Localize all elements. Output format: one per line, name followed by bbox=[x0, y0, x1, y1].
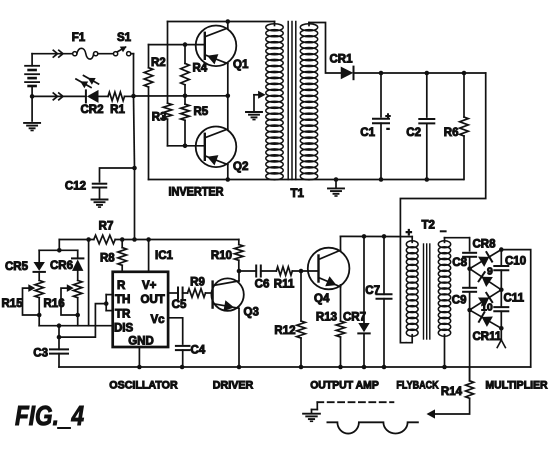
svg-text:OSCILLATOR: OSCILLATOR bbox=[109, 380, 177, 392]
svg-text:R11: R11 bbox=[274, 279, 295, 291]
transformer T2 secondary coil bbox=[438, 241, 450, 248]
svg-text:10: 10 bbox=[481, 302, 493, 314]
TH TR bracket bbox=[105, 295, 107, 311]
node CR7 top bbox=[362, 234, 367, 239]
node R4 top bbox=[183, 42, 188, 47]
capacitor C2 bbox=[426, 73, 428, 117]
svg-text:R2: R2 bbox=[151, 57, 166, 69]
battery B1 bbox=[31, 54, 33, 66]
switch S1 bbox=[114, 52, 118, 56]
emitter rail wire bbox=[134, 95, 228, 97]
svg-text:9: 9 bbox=[487, 266, 493, 278]
potentiometer R15 bbox=[35, 280, 44, 297]
node L2 bbox=[467, 266, 472, 271]
wire rail down to CR5/CR6 bracket bbox=[58, 240, 60, 251]
svg-text:R12: R12 bbox=[274, 325, 295, 337]
oscillator top rail left part bbox=[59, 239, 94, 241]
resistor R12 bbox=[300, 271, 302, 321]
resistor R10 bbox=[235, 245, 244, 261]
wire rail corner into R10 bbox=[238, 240, 240, 245]
svg-text:S1: S1 bbox=[117, 32, 132, 44]
potentiometer R16 bbox=[73, 280, 82, 297]
ground T1 bottom rail bbox=[335, 180, 337, 188]
photodiode CR2 bbox=[85, 90, 87, 102]
node Q3 collector bbox=[237, 269, 242, 274]
diode 9 bbox=[482, 277, 493, 287]
svg-text:+: + bbox=[385, 111, 390, 121]
svg-text:DRIVER: DRIVER bbox=[213, 380, 253, 392]
diode CR6 bbox=[77, 250, 79, 258]
svg-text:R9: R9 bbox=[190, 277, 205, 289]
capacitor C10 bbox=[500, 250, 502, 266]
transistor Q2 bbox=[196, 127, 237, 168]
transformer T2 primary coil bbox=[406, 241, 418, 248]
DIS wire to CR bracket bottom bbox=[39, 325, 113, 327]
resistor R13 bbox=[340, 285, 342, 321]
V+ pin wire bbox=[148, 240, 150, 272]
transistor Q3 bbox=[211, 278, 243, 310]
resistor R3 bbox=[163, 103, 172, 119]
wire x89 vertical to DIS line bbox=[88, 240, 90, 326]
node C3 branch top bbox=[57, 323, 62, 328]
capacitor C1 (polarized) bbox=[380, 73, 382, 117]
ground below battery bbox=[31, 96, 33, 121]
wire main supply vertical bbox=[134, 96, 135, 168]
wire TH/TR link to bracket bbox=[59, 304, 106, 338]
dashed reference line bbox=[317, 401, 393, 403]
svg-text:R3: R3 bbox=[152, 112, 167, 124]
fuse F1 bbox=[73, 52, 77, 56]
svg-text:C8: C8 bbox=[452, 257, 467, 269]
resistor R6 bbox=[463, 73, 465, 117]
OUT pin wire bbox=[168, 292, 178, 294]
inverter bottom rail bbox=[149, 179, 464, 181]
node R8 top bbox=[120, 237, 125, 242]
wire R2 below rail to bottom rail bbox=[148, 96, 150, 180]
capacitor C8 bbox=[463, 252, 476, 254]
T2 core bbox=[423, 244, 425, 339]
svg-text:T1: T1 bbox=[291, 188, 305, 200]
resistor R2 bbox=[148, 45, 150, 68]
wire Q3 collector to C6 bbox=[239, 270, 256, 272]
resistor R8 bbox=[121, 240, 123, 248]
svg-text:R13: R13 bbox=[316, 312, 337, 324]
oscillator top rail right part bbox=[115, 239, 239, 241]
resistor R9 bbox=[188, 289, 206, 298]
node C2 top bbox=[425, 71, 430, 76]
resistor R11 bbox=[276, 267, 292, 276]
svg-text:C7: C7 bbox=[365, 285, 380, 297]
svg-text:OUT: OUT bbox=[141, 294, 165, 306]
resistor R5 bbox=[184, 96, 186, 104]
node Q2 emitter bottom bbox=[226, 177, 231, 182]
resistor R4 bbox=[184, 45, 186, 64]
svg-text:Q3: Q3 bbox=[244, 307, 259, 319]
wire V+ feed from rectifier to T2 bbox=[400, 73, 485, 343]
svg-text:FIG._4: FIG._4 bbox=[15, 400, 84, 431]
node T2 secondary bottom bbox=[442, 365, 447, 370]
diode CR7 bbox=[363, 236, 365, 323]
capacitor C9 bbox=[469, 269, 471, 288]
svg-text:C6: C6 bbox=[255, 279, 270, 291]
wire left column through rail to R14 bbox=[469, 310, 471, 381]
diode CR11 bbox=[482, 317, 493, 327]
svg-text:CR5: CR5 bbox=[5, 261, 29, 273]
svg-text:R8: R8 bbox=[100, 253, 115, 265]
T1 center tap ground with arrow bbox=[254, 94, 262, 96]
node R3 output bbox=[499, 326, 504, 331]
transistor Q1 bbox=[196, 26, 237, 67]
node R2 right bbox=[499, 288, 504, 293]
svg-text:DIS: DIS bbox=[114, 323, 134, 335]
svg-text:R16: R16 bbox=[44, 298, 65, 310]
node Q1 emitter / Q2 collector bbox=[226, 94, 231, 99]
diode CR8 bbox=[478, 257, 489, 267]
node L3 bbox=[467, 308, 472, 313]
wire switch to node bbox=[131, 53, 134, 55]
node battery junction bbox=[30, 94, 35, 99]
IC1 box bbox=[113, 272, 168, 347]
node TH/TR link bbox=[57, 335, 62, 340]
capacitor C3 bbox=[50, 348, 68, 350]
svg-text:Q1: Q1 bbox=[233, 59, 249, 71]
svg-text:R7: R7 bbox=[99, 221, 114, 233]
svg-text:TR: TR bbox=[115, 309, 131, 321]
capacitor C5 bbox=[177, 288, 179, 299]
svg-text:MULTIPLIER: MULTIPLIER bbox=[485, 380, 547, 392]
node C7 top bbox=[382, 234, 387, 239]
capacitor C12 bbox=[100, 168, 135, 182]
svg-text:R5: R5 bbox=[194, 106, 209, 118]
svg-text:R15: R15 bbox=[2, 298, 24, 310]
svg-text:C9: C9 bbox=[452, 295, 467, 307]
node R5 bottom bbox=[183, 144, 188, 149]
svg-text:C11: C11 bbox=[504, 293, 525, 305]
svg-text:-: - bbox=[386, 124, 389, 135]
svg-text:CR1: CR1 bbox=[329, 54, 353, 66]
T1 core bbox=[287, 22, 289, 180]
transformer T1 primary coil bbox=[266, 24, 283, 31]
wire battery to CR2 bbox=[32, 95, 86, 97]
svg-text:Q2: Q2 bbox=[233, 161, 248, 173]
svg-text:R6: R6 bbox=[444, 127, 459, 139]
capacitor C7 bbox=[383, 236, 385, 294]
svg-text:R10: R10 bbox=[211, 250, 232, 262]
svg-text:FLYBACK: FLYBACK bbox=[396, 380, 438, 392]
node Q1 collector on top rail bbox=[226, 19, 231, 24]
output amp top rail bbox=[341, 235, 413, 237]
capacitor C4 bbox=[176, 345, 190, 347]
ground below C12 bbox=[92, 199, 108, 201]
CR5/CR6 top bracket bbox=[39, 249, 77, 251]
svg-text:CR7: CR7 bbox=[343, 312, 366, 324]
svg-text:+: + bbox=[406, 227, 412, 239]
wire battery top to fuse bbox=[32, 53, 73, 55]
svg-text:GND: GND bbox=[128, 336, 154, 348]
svg-text:R14: R14 bbox=[441, 386, 463, 398]
wire C3 branch bbox=[58, 326, 60, 350]
svg-text:C3: C3 bbox=[33, 348, 48, 360]
svg-text:C5: C5 bbox=[172, 299, 187, 311]
node Q3 emitter bottom bbox=[237, 365, 242, 370]
wire T1 secondary top to CR1 bbox=[309, 23, 341, 74]
resistor R7 in rail bbox=[94, 235, 115, 244]
capacitor C11 bbox=[500, 290, 502, 307]
ground below dashed line bbox=[311, 410, 313, 413]
wire S1 node down bbox=[133, 54, 135, 96]
node R1/S1 bbox=[131, 94, 136, 99]
capacitor C6 bbox=[255, 266, 257, 277]
node C1 bottom bbox=[379, 177, 384, 182]
wire Q2 base bbox=[168, 145, 205, 147]
svg-text:F1: F1 bbox=[72, 32, 86, 44]
node supply entry bbox=[132, 237, 137, 242]
svg-text:Q4: Q4 bbox=[314, 293, 330, 305]
Vc pin wire to C4 bbox=[168, 318, 183, 344]
node R4 bottom bbox=[183, 94, 188, 99]
node C2 bottom bbox=[425, 177, 430, 182]
svg-text:C12: C12 bbox=[65, 181, 86, 193]
node V+ pin top bbox=[146, 237, 151, 242]
svg-text:OUTPUT AMP: OUTPUT AMP bbox=[310, 380, 379, 392]
wire Q1 base bbox=[149, 44, 205, 46]
multiplier left column bbox=[469, 238, 471, 251]
svg-text:R1: R1 bbox=[110, 104, 125, 116]
svg-text:INVERTER: INVERTER bbox=[169, 187, 225, 199]
inverter top rail bbox=[168, 21, 275, 23]
node R12 bottom bbox=[299, 365, 304, 370]
common bottom rail bbox=[59, 366, 531, 368]
node CR7 bottom bbox=[362, 365, 367, 370]
wire T2 secondary top to multiplier bbox=[445, 237, 470, 239]
svg-text:CR8: CR8 bbox=[473, 239, 497, 251]
diode CR1 bbox=[340, 67, 342, 79]
wire R3 branch vertical bbox=[167, 22, 169, 104]
svg-text:C1: C1 bbox=[360, 127, 375, 139]
node R1 top right bbox=[499, 247, 504, 252]
GND pin wire bbox=[138, 347, 140, 367]
node C7 bottom bbox=[382, 365, 387, 370]
chevrons top wire bbox=[53, 50, 57, 57]
resistor R14 bbox=[469, 367, 471, 381]
svg-text:Vc: Vc bbox=[151, 314, 166, 326]
svg-text:TH: TH bbox=[115, 294, 130, 306]
diode 10 bbox=[478, 298, 489, 308]
node R6 top bbox=[462, 71, 467, 76]
svg-text:R: R bbox=[117, 280, 126, 292]
svg-text:C4: C4 bbox=[191, 345, 206, 357]
svg-text:CR2: CR2 bbox=[80, 104, 103, 116]
chevrons lower wire bbox=[53, 93, 57, 100]
resistor R1 bbox=[108, 92, 125, 101]
svg-text:C2: C2 bbox=[406, 127, 421, 139]
HV output whisker bbox=[500, 328, 502, 340]
svg-text:R4: R4 bbox=[193, 63, 208, 75]
node rail/branch x89 bbox=[86, 237, 91, 242]
svg-text:V+: V+ bbox=[142, 280, 157, 292]
svg-text:CR6: CR6 bbox=[50, 260, 73, 272]
transistor Q4 bbox=[308, 248, 350, 290]
svg-text:T2: T2 bbox=[422, 220, 435, 232]
node C1 top bbox=[379, 71, 384, 76]
svg-text:IC1: IC1 bbox=[155, 250, 174, 262]
svg-text:CR11: CR11 bbox=[473, 331, 502, 343]
diode CR5 bbox=[38, 250, 40, 262]
electrode surface bbox=[327, 422, 418, 433]
transformer T1 secondary coil bbox=[300, 24, 317, 31]
wire fuse to switch bbox=[98, 53, 114, 55]
node R12 tap bbox=[299, 269, 304, 274]
node R13 bottom bbox=[338, 365, 343, 370]
multiplier right return wire bbox=[501, 250, 530, 367]
node C12 tap bbox=[132, 166, 137, 171]
svg-text:C10: C10 bbox=[505, 256, 526, 268]
